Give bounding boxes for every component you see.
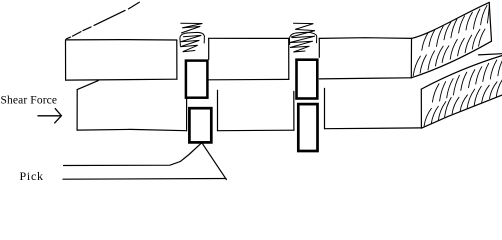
spring S1 coil right side — [203, 37, 205, 43]
upper bar bottom edge middle segment — [209, 78, 289, 80]
spring S2 zigzag top — [292, 23, 315, 37]
upper bar slot 1 right wall — [208, 38, 210, 59]
lower bar slot 2 left wall — [293, 91, 295, 130]
upper bar top face diagonal (dashed, hand drawn) — [67, 2, 140, 39]
lower bar back top edge line — [479, 54, 502, 55]
spring S1 zigzag top — [181, 23, 203, 33]
lower end face hatching — [424, 54, 502, 126]
pick yarn descending line — [202, 143, 227, 180]
shear force arrow shaft — [38, 115, 60, 117]
upper bar top edge left segment — [66, 39, 177, 41]
lower bar hatched end face top edge — [421, 56, 502, 90]
shear force arrow head — [55, 109, 62, 123]
spring S2 coil outline — [290, 32, 317, 37]
upper end face hatching — [413, 4, 489, 76]
svg-text:Pick: Pick — [20, 169, 44, 183]
upper bar bottom edge left segment — [66, 78, 177, 81]
svg-text:Shear Force: Shear Force — [1, 95, 58, 107]
lower bar bottom edge right segment — [325, 127, 422, 130]
lower bar bottom edge middle segment — [218, 129, 295, 132]
spring S1 coil left side — [179, 38, 182, 46]
upper bar hatched end face right edge — [489, 2, 491, 41]
lower bar hatched end face bottom edge — [421, 95, 502, 128]
pick yarn lower line — [63, 178, 226, 181]
pin P2 upper (spring loaded) — [297, 60, 318, 99]
upper bar left edge — [65, 40, 67, 80]
lower bar right end edge — [420, 89, 422, 128]
upper bar bottom edge right segment — [319, 78, 411, 79]
upper bar right end edge — [410, 38, 412, 77]
upper bar top edge right segment — [319, 37, 411, 40]
pin P1 lower — [189, 108, 211, 142]
lower bar slot 1 right wall — [217, 90, 219, 130]
lower bar bottom edge left segment — [77, 129, 186, 130]
pin P2 lower — [298, 104, 317, 151]
spring S2 coil right side — [316, 36, 318, 42]
lower bar top-left diagonal — [77, 81, 98, 90]
lower bar slot 2 right wall — [324, 88, 326, 128]
pick yarn upper line — [64, 143, 202, 166]
upper bar hatched end face bottom edge — [411, 41, 491, 78]
upper bar slot 2 left wall — [288, 38, 290, 79]
spring S2 coil left side — [288, 38, 290, 45]
lower bar left edge — [76, 90, 78, 131]
upper bar slot 1 left wall — [176, 40, 178, 79]
upper bar slot 2 right wall — [318, 38, 320, 57]
upper bar hatched end face top edge — [412, 2, 490, 38]
upper bar top edge middle segment — [209, 37, 289, 39]
pin P1 upper (spring loaded) — [186, 61, 208, 98]
spring S2 coil zigzag — [289, 36, 315, 52]
spring S1 coil outline — [180, 32, 204, 37]
spring S1 coil zigzag — [180, 35, 201, 51]
lower bar slot 1 left wall — [186, 99, 188, 131]
